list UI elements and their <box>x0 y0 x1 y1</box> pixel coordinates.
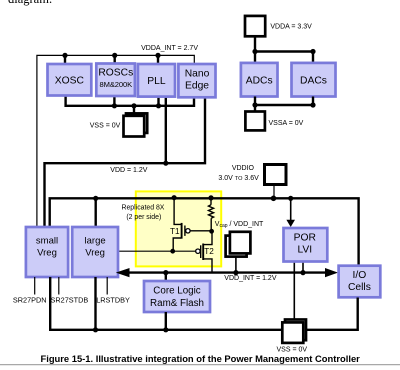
junction <box>271 196 277 202</box>
junction <box>163 327 168 332</box>
junction <box>131 103 136 108</box>
wire POR LVI left pin to VSS pad <box>293 262 295 320</box>
junction <box>163 270 168 275</box>
junction <box>310 49 315 54</box>
svg-text:Ram& Flash: Ram& Flash <box>150 298 204 309</box>
wire Core Logic top pin <box>165 273 167 281</box>
block small Vreg <box>26 227 68 277</box>
svg-text:T2: T2 <box>204 247 214 256</box>
svg-text:I/O: I/O <box>353 270 367 281</box>
svg-text:Vcap / VDD_INT: Vcap / VDD_INT <box>215 221 264 229</box>
junction <box>112 53 117 58</box>
junction <box>163 161 168 166</box>
junction <box>252 49 257 54</box>
svg-text:VDDIO: VDDIO <box>232 165 255 172</box>
wire T1/T2 gate net to large Vreg <box>118 250 196 252</box>
wire large Vreg top pin <box>94 198 96 227</box>
transistor T2 <box>196 231 212 271</box>
arrowhead into I/O Cells <box>325 268 338 277</box>
junction <box>252 102 257 107</box>
wire Vcap pad stub <box>235 257 237 273</box>
svg-text:large: large <box>85 236 106 247</box>
block PLL <box>138 64 175 97</box>
block large Vreg <box>72 227 118 277</box>
svg-text:Vreg: Vreg <box>85 247 105 258</box>
svg-text:LVI: LVI <box>297 244 312 255</box>
node Vcap / VDD_INT <box>209 229 214 234</box>
junction <box>233 270 238 275</box>
junction <box>93 327 98 332</box>
block Nano Edge <box>178 64 215 97</box>
svg-text:PLL: PLL <box>147 76 166 87</box>
junction <box>155 53 160 58</box>
svg-text:ROSCs: ROSCs <box>98 68 133 79</box>
pad Vcap front square <box>230 232 251 254</box>
node VDDA_INT net (thin top rail + left outer VSS wire) <box>37 55 194 227</box>
junction T1 drain on gate net <box>170 249 175 254</box>
wire SR27PDN stub <box>34 277 36 295</box>
svg-text:Replicated 8X: Replicated 8X <box>122 205 165 212</box>
svg-text:VDD_INT = 1.2V: VDD_INT = 1.2V <box>224 275 277 282</box>
svg-text:Nano: Nano <box>185 69 210 80</box>
svg-text:LRSTDBY: LRSTDBY <box>96 295 130 304</box>
pad VDDA <box>245 16 265 36</box>
wire VSS rail under oscillator boxes <box>66 95 194 106</box>
svg-text:(2 per side): (2 per side) <box>126 214 161 221</box>
arrowhead into POR LVI <box>286 220 295 227</box>
wire bottom VSS rail right + I/O Cells bottom pin <box>306 298 358 330</box>
wire VDD rail 1.2V <box>45 96 206 227</box>
footer rule <box>0 364 400 366</box>
replicated-cell highlight (yellow region) <box>136 191 221 266</box>
wire VDDIO rail <box>50 198 359 265</box>
block ROSCs <box>96 64 135 97</box>
wire PLL bottom stub <box>157 96 159 106</box>
svg-text:Vreg: Vreg <box>37 247 57 258</box>
wire VDDA pad net <box>255 36 313 63</box>
wire LRSTDBY stub <box>106 277 108 295</box>
svg-text:Core Logic: Core Logic <box>153 286 200 297</box>
block XOSC <box>48 64 92 96</box>
pad VSSA <box>245 112 265 131</box>
junction <box>300 270 305 275</box>
pad VSS (oscillators) back square <box>126 113 147 132</box>
wire POR LVI arrow lead <box>290 198 292 220</box>
svg-text:small: small <box>36 236 58 247</box>
wire Core Logic bottom pin <box>165 312 167 330</box>
wire PLL VDD pin <box>165 96 167 163</box>
wire VSS pad stub <box>133 106 135 115</box>
junction T1 source on rail <box>172 195 177 200</box>
wire ROSCs top stub <box>113 55 115 63</box>
wire SR27STDB stub <box>58 277 60 295</box>
svg-text:VSS = 0V: VSS = 0V <box>90 122 121 129</box>
svg-text:VDDA = 3.3V: VDDA = 3.3V <box>270 24 312 31</box>
junction <box>112 103 117 108</box>
pad Vcap back square <box>226 236 247 257</box>
svg-text:diagram.: diagram. <box>8 0 52 6</box>
svg-text:VDD = 1.2V: VDD = 1.2V <box>110 167 147 174</box>
wire ROSCs bottom stub <box>113 96 115 106</box>
junction <box>156 103 161 108</box>
wire POR LVI right pin <box>302 262 304 273</box>
block I/O Cells <box>339 266 381 298</box>
svg-text:T1: T1 <box>170 227 180 236</box>
junction <box>310 102 315 107</box>
wire VDDIO pad stub <box>273 185 275 199</box>
pad VSS (bottom) front square <box>282 322 303 343</box>
svg-text:Edge: Edge <box>185 80 209 91</box>
svg-text:8M&200K: 8M&200K <box>99 80 132 89</box>
wire XOSC top stub <box>64 55 66 64</box>
block DACs <box>292 63 336 97</box>
svg-text:SR27PDN: SR27PDN <box>13 295 47 304</box>
junction resistor on rail <box>208 195 213 200</box>
wire PLL top stub <box>157 55 159 64</box>
pad VDDIO <box>265 165 287 185</box>
svg-text:3.0V TO 3.6V: 3.0V TO 3.6V <box>218 175 259 182</box>
svg-text:VDDA_INT = 2.7V: VDDA_INT = 2.7V <box>141 45 198 52</box>
svg-text:DACs: DACs <box>300 76 327 87</box>
arrowhead into large Vreg <box>116 268 130 277</box>
label Replicated 8X (2 per side) <box>122 205 165 221</box>
block ADCs <box>241 63 278 97</box>
wire VDD_INT rail <box>126 271 330 273</box>
svg-text:Figure 15-1. Illustrative inte: Figure 15-1. Illustrative integration of… <box>41 353 361 364</box>
junction <box>93 196 98 201</box>
svg-text:SR27STDB: SR27STDB <box>51 295 89 304</box>
block Core Logic Ram&Flash <box>144 281 210 312</box>
svg-text:XOSC: XOSC <box>55 76 85 87</box>
svg-text:ADCs: ADCs <box>246 76 273 87</box>
junction POR arrow on rail <box>288 196 293 201</box>
svg-text:Cells: Cells <box>348 282 371 293</box>
svg-text:POR: POR <box>294 233 316 244</box>
junction <box>62 53 67 58</box>
pad VSS (oscillators) front square <box>124 116 145 137</box>
wire large Vreg bottom pin <box>94 277 96 330</box>
resistor R (bias) <box>209 199 214 232</box>
wire bottom VSS rail left <box>50 277 282 330</box>
label VDDIO 3.0V to 3.6V <box>218 165 259 182</box>
svg-text:VSSA = 0V: VSSA = 0V <box>269 120 304 127</box>
transistor T1 <box>173 198 211 252</box>
pad VSS (bottom) back square <box>285 320 306 341</box>
wire VSSA net <box>255 97 313 112</box>
block POR LVI <box>284 228 328 262</box>
